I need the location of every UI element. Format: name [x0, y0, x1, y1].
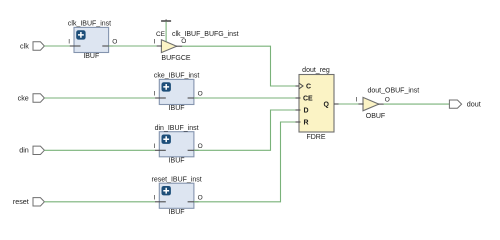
- wire din port to IBUF: [44, 149, 155, 151]
- svg-text:dout_OBUF_inst: dout_OBUF_inst: [368, 88, 420, 95]
- buffer reset_IBUF_inst (IBUF): [152, 177, 203, 216]
- svg-text:clk: clk: [20, 41, 29, 50]
- wire cke IBUF to FDRE CE: [194, 97, 297, 99]
- flip-flop dout_reg (FDRE): [296, 67, 339, 141]
- svg-text:I: I: [153, 91, 155, 98]
- wire reset IBUF to FDRE R: [194, 122, 297, 202]
- wire clk port to IBUF: [44, 45, 70, 47]
- port dout: [449, 100, 480, 109]
- svg-text:I: I: [153, 143, 155, 150]
- svg-text:IBUF: IBUF: [169, 105, 185, 112]
- svg-text:dout: dout: [467, 100, 481, 109]
- wire OBUF to dout port: [384, 103, 450, 105]
- svg-text:O: O: [181, 38, 186, 45]
- buffer clk_IBUF_inst (IBUF): [68, 21, 117, 60]
- port cke: [18, 93, 45, 102]
- svg-text:D: D: [304, 108, 309, 115]
- svg-text:R: R: [304, 120, 309, 127]
- svg-text:reset_IBUF_inst: reset_IBUF_inst: [152, 177, 202, 184]
- svg-text:clk_IBUF_inst: clk_IBUF_inst: [68, 21, 111, 28]
- svg-text:dout_reg: dout_reg: [302, 67, 330, 74]
- svg-text:BUFGCE: BUFGCE: [161, 55, 191, 62]
- svg-text:Q: Q: [324, 102, 330, 109]
- wire cke port to IBUF: [44, 97, 155, 99]
- svg-text:reset: reset: [13, 197, 29, 206]
- wire vcc to BUFGCE CE: [165, 22, 167, 42]
- svg-text:cke_IBUF_inst: cke_IBUF_inst: [154, 73, 200, 80]
- buffer din_IBUF_inst (IBUF): [153, 125, 202, 164]
- svg-text:O: O: [198, 91, 203, 98]
- power vcc (const1): [161, 19, 171, 21]
- wire FDRE Q to OBUF: [339, 103, 360, 105]
- svg-text:CE: CE: [156, 31, 166, 38]
- svg-text:IBUF: IBUF: [169, 209, 185, 216]
- svg-text:OBUF: OBUF: [366, 113, 385, 120]
- port clk: [20, 41, 44, 50]
- svg-text:O: O: [198, 195, 203, 202]
- port din: [19, 146, 44, 155]
- svg-text:C: C: [306, 84, 311, 91]
- wire BUFGCE O to FDRE C: [182, 46, 297, 86]
- svg-text:I: I: [154, 39, 156, 46]
- svg-text:I: I: [356, 97, 358, 104]
- svg-text:FDRE: FDRE: [306, 134, 325, 141]
- wire reset port to IBUF: [44, 201, 155, 203]
- buffer dout_OBUF_inst (OBUF): [356, 88, 420, 121]
- svg-text:CE: CE: [303, 96, 313, 103]
- svg-text:IBUF: IBUF: [169, 157, 185, 164]
- wire din IBUF to FDRE D: [194, 110, 297, 150]
- svg-text:IBUF: IBUF: [83, 53, 99, 60]
- buffer cke_IBUF_inst (IBUF): [153, 73, 202, 112]
- svg-text:I: I: [153, 195, 155, 202]
- svg-text:O: O: [198, 143, 203, 150]
- svg-text:O: O: [112, 39, 117, 46]
- port reset: [13, 197, 45, 206]
- svg-text:cke: cke: [18, 93, 29, 102]
- svg-text:clk_IBUF_BUFG_inst: clk_IBUF_BUFG_inst: [172, 31, 239, 38]
- svg-text:O: O: [385, 96, 390, 103]
- svg-text:din: din: [19, 146, 29, 155]
- buffer clk_IBUF_BUFG_inst (BUFGCE): [154, 31, 239, 62]
- wire IBUF to BUFGCE: [109, 45, 158, 47]
- svg-text:din_IBUF_inst: din_IBUF_inst: [155, 125, 199, 132]
- svg-text:I: I: [68, 39, 70, 46]
